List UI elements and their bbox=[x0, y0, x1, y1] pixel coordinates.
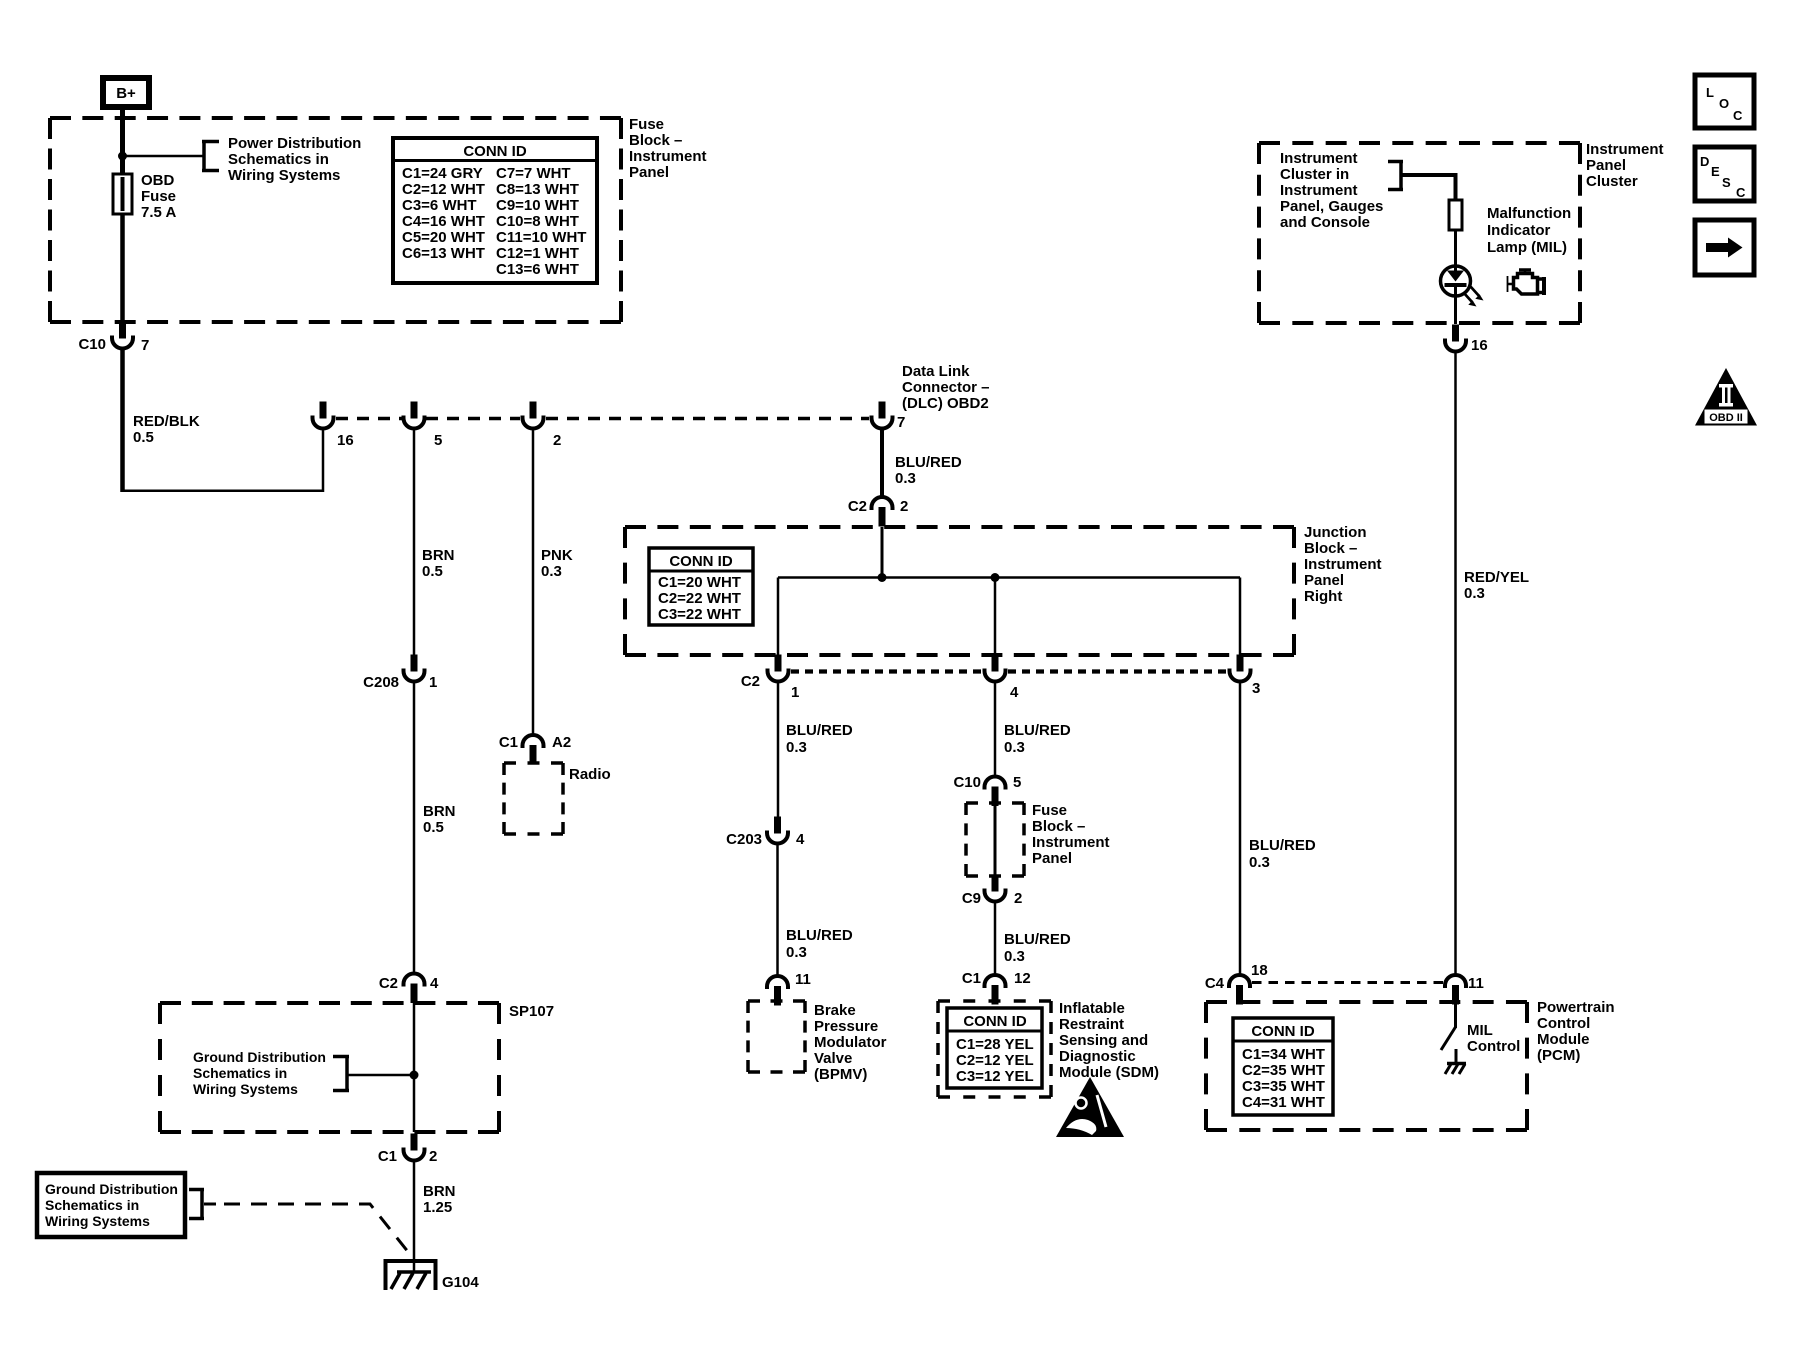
label BLU/RED 0.3 lower bbox=[786, 927, 853, 961]
svg-text:Ground Distribution: Ground Distribution bbox=[193, 1049, 326, 1065]
svg-text:Pressure: Pressure bbox=[814, 1018, 878, 1035]
svg-text:C1: C1 bbox=[962, 970, 981, 987]
svg-text:C9=10 WHT: C9=10 WHT bbox=[496, 197, 579, 214]
svg-text:CONN ID: CONN ID bbox=[963, 1013, 1027, 1030]
svg-text:Schematics in: Schematics in bbox=[228, 151, 329, 168]
svg-text:Panel: Panel bbox=[1032, 850, 1072, 867]
label Ground Distribution Schematics in Wiring Systems (SP107) bbox=[193, 1049, 326, 1097]
svg-text:Fuse: Fuse bbox=[1032, 802, 1067, 819]
svg-text:16: 16 bbox=[337, 432, 354, 449]
icon DESC box bbox=[1695, 147, 1754, 201]
svg-text:S: S bbox=[1722, 175, 1731, 190]
svg-text:0.3: 0.3 bbox=[1004, 739, 1025, 756]
ground internal PCM bbox=[1445, 1049, 1466, 1074]
svg-text:Indicator: Indicator bbox=[1487, 222, 1551, 239]
fuse block - instrument panel small (dashed box) bbox=[966, 803, 1024, 876]
svg-text:Instrument: Instrument bbox=[1032, 834, 1110, 851]
label BLU/RED 0.3 bbox=[895, 454, 962, 487]
svg-text:C13=6 WHT: C13=6 WHT bbox=[496, 261, 579, 278]
table CONN ID SDM bbox=[947, 1008, 1042, 1088]
wire lamp to LED bbox=[1454, 230, 1457, 266]
svg-text:MIL: MIL bbox=[1467, 1022, 1493, 1039]
svg-text:Instrument: Instrument bbox=[629, 148, 707, 165]
svg-text:A2: A2 bbox=[552, 734, 571, 751]
label Fuse Block - Instrument Panel bbox=[629, 116, 707, 181]
svg-text:Schematics in: Schematics in bbox=[45, 1197, 139, 1213]
svg-text:Module: Module bbox=[1537, 1031, 1590, 1048]
svg-text:5: 5 bbox=[434, 432, 442, 449]
svg-text:5: 5 bbox=[1013, 774, 1021, 791]
wire BRN 1.25 to ground bbox=[413, 1159, 416, 1272]
wire B+ feed down to fuse bbox=[120, 118, 125, 176]
connector C203 pin 4 bbox=[726, 817, 805, 849]
svg-text:Valve: Valve bbox=[814, 1050, 852, 1067]
svg-text:C4=16 WHT: C4=16 WHT bbox=[402, 213, 485, 230]
svg-text:Instrument: Instrument bbox=[1280, 182, 1358, 199]
svg-text:CONN ID: CONN ID bbox=[463, 143, 527, 160]
wire fuse to connector C10 bbox=[120, 214, 125, 324]
svg-text:1.25: 1.25 bbox=[423, 1199, 452, 1216]
svg-text:7: 7 bbox=[141, 337, 149, 354]
wire junction block distribution bar bbox=[778, 576, 1240, 579]
svg-text:2: 2 bbox=[1014, 890, 1022, 907]
connector DLC pin 7 bbox=[872, 402, 906, 432]
svg-text:2: 2 bbox=[429, 1148, 437, 1165]
reference box Ground Distribution Schematics in Wiring Systems bbox=[37, 1173, 185, 1237]
svg-text:BLU/RED: BLU/RED bbox=[786, 722, 853, 739]
label BLU/RED 0.3 bbox=[1004, 722, 1071, 756]
svg-text:C2: C2 bbox=[379, 975, 398, 992]
wire bracket to lamp bbox=[1401, 175, 1456, 200]
svg-text:RED/BLK: RED/BLK bbox=[133, 413, 200, 430]
component PCM (dashed box) bbox=[1206, 1002, 1527, 1130]
junction block - instrument panel right (dashed box) bbox=[625, 527, 1294, 655]
svg-text:C4=31 WHT: C4=31 WHT bbox=[1242, 1094, 1325, 1111]
svg-text:BRN: BRN bbox=[423, 803, 456, 820]
splice SP107 (dashed box) bbox=[160, 1003, 499, 1132]
svg-text:Block –: Block – bbox=[1304, 540, 1357, 557]
svg-text:Panel: Panel bbox=[629, 164, 669, 181]
svg-text:18: 18 bbox=[1251, 962, 1268, 979]
svg-text:L: L bbox=[1706, 85, 1714, 100]
connector C2 pin 3 bbox=[1230, 655, 1261, 698]
svg-text:CONN ID: CONN ID bbox=[1251, 1023, 1315, 1040]
svg-text:C2: C2 bbox=[848, 498, 867, 515]
wire BLU/RED C203 to BPMV bbox=[776, 842, 779, 978]
svg-text:C203: C203 bbox=[726, 831, 762, 848]
wire BLU/RED junction pin 3 to C4 bbox=[1239, 680, 1242, 976]
svg-text:PNK: PNK bbox=[541, 547, 573, 564]
wire RED/BLK down from C10 bbox=[120, 347, 125, 492]
svg-text:Data Link: Data Link bbox=[902, 363, 970, 380]
svg-text:Inflatable: Inflatable bbox=[1059, 1000, 1125, 1017]
svg-text:C1=20 WHT: C1=20 WHT bbox=[658, 574, 741, 591]
svg-text:Instrument: Instrument bbox=[1586, 141, 1664, 158]
svg-text:Sensing and: Sensing and bbox=[1059, 1032, 1148, 1049]
connector C1 pin 2 bbox=[378, 1134, 438, 1166]
svg-text:(BPMV): (BPMV) bbox=[814, 1066, 867, 1083]
wire through SP107 bbox=[413, 1003, 416, 1132]
fuse OBD 7.5 A bbox=[113, 174, 132, 214]
wire PNK from DLC pin 2 bbox=[532, 427, 535, 735]
node junction dot on B+ feed bbox=[118, 152, 127, 161]
svg-text:12: 12 bbox=[1014, 970, 1031, 987]
svg-text:C1=34 WHT: C1=34 WHT bbox=[1242, 1046, 1325, 1063]
table CONN ID fuse block bbox=[393, 138, 597, 283]
wire junction leg 3 bbox=[1239, 578, 1242, 658]
svg-text:Junction: Junction bbox=[1304, 524, 1367, 541]
node splice dot SP107 bbox=[410, 1071, 419, 1080]
table CONN ID PCM bbox=[1233, 1018, 1333, 1115]
svg-text:C208: C208 bbox=[363, 674, 399, 691]
svg-text:BLU/RED: BLU/RED bbox=[1004, 722, 1071, 739]
wire BRN to C2 bbox=[413, 680, 416, 974]
LED emission arrows bbox=[1464, 287, 1484, 307]
wire branch to power distribution reference bbox=[123, 155, 205, 158]
svg-text:1: 1 bbox=[791, 684, 799, 701]
connector C9 pin 2 bbox=[962, 875, 1023, 908]
svg-text:CONN ID: CONN ID bbox=[669, 553, 733, 570]
node dot at center leg bbox=[991, 573, 1000, 582]
svg-text:BLU/RED: BLU/RED bbox=[1249, 837, 1316, 854]
icon check engine bbox=[1508, 270, 1545, 295]
svg-text:Malfunction: Malfunction bbox=[1487, 205, 1571, 222]
wire dashed pointer to G104 bbox=[224, 1204, 409, 1253]
svg-text:BLU/RED: BLU/RED bbox=[786, 927, 853, 944]
label Malfunction Indicator Lamp (MIL) bbox=[1487, 205, 1571, 256]
svg-text:C2=12 WHT: C2=12 WHT bbox=[402, 181, 485, 198]
bracket ground distribution reference bbox=[333, 1055, 349, 1092]
svg-text:Cluster in: Cluster in bbox=[1280, 166, 1349, 183]
svg-text:Wiring Systems: Wiring Systems bbox=[45, 1213, 150, 1229]
connector C2 pin 1 bbox=[741, 655, 800, 702]
svg-text:4: 4 bbox=[796, 831, 805, 848]
svg-text:11: 11 bbox=[1468, 975, 1484, 992]
connector DLC pin 16 bbox=[313, 402, 354, 450]
svg-text:Fuse: Fuse bbox=[141, 188, 176, 205]
svg-text:Right: Right bbox=[1304, 588, 1342, 605]
svg-text:0.3: 0.3 bbox=[541, 563, 562, 580]
svg-text:C11=10 WHT: C11=10 WHT bbox=[496, 229, 586, 246]
svg-text:C6=13 WHT: C6=13 WHT bbox=[402, 245, 485, 262]
svg-text:Powertrain: Powertrain bbox=[1537, 999, 1615, 1016]
label MIL Control bbox=[1467, 1022, 1520, 1055]
svg-text:C: C bbox=[1733, 108, 1743, 123]
label BRN 0.5 lower bbox=[423, 803, 456, 836]
label Brake Pressure Modulator Valve (BPMV) bbox=[814, 1002, 887, 1083]
svg-text:4: 4 bbox=[430, 975, 439, 992]
connector DLC pin 5 bbox=[404, 402, 443, 450]
label BLU/RED 0.3 bbox=[786, 722, 853, 756]
svg-text:C3=35 WHT: C3=35 WHT bbox=[1242, 1078, 1325, 1095]
svg-text:C5=20 WHT: C5=20 WHT bbox=[402, 229, 485, 246]
svg-text:RED/YEL: RED/YEL bbox=[1464, 569, 1529, 586]
label OBD Fuse 7.5 A bbox=[141, 172, 176, 221]
label Data Link Connector - (DLC) OBD2 bbox=[902, 363, 990, 412]
svg-text:3: 3 bbox=[1252, 680, 1260, 697]
wire BRN from DLC pin 5 bbox=[413, 427, 416, 656]
label Powertrain Control Module (PCM) bbox=[1537, 999, 1615, 1064]
icon OBD II triangle bbox=[1695, 368, 1757, 426]
svg-text:7.5 A: 7.5 A bbox=[141, 204, 176, 221]
label Inflatable Restraint Sensing and Diagnostic Module (SDM) bbox=[1059, 1000, 1159, 1081]
label Fuse Block - Instrument Panel small bbox=[1032, 802, 1110, 867]
svg-text:C4: C4 bbox=[1205, 975, 1225, 992]
svg-text:OBD II: OBD II bbox=[1709, 412, 1743, 424]
svg-text:OBD: OBD bbox=[141, 172, 175, 189]
connector C10 pin 5 bbox=[953, 774, 1021, 806]
wire B+ to fuse block bbox=[120, 107, 125, 120]
fuse block - instrument panel (dashed box) bbox=[50, 118, 621, 322]
svg-text:0.3: 0.3 bbox=[1464, 585, 1485, 602]
component Radio (dashed box) bbox=[504, 763, 563, 834]
wire BLU/RED junction pin 1 to C203 bbox=[777, 680, 780, 817]
svg-text:0.3: 0.3 bbox=[1249, 854, 1270, 871]
svg-text:Module (SDM): Module (SDM) bbox=[1059, 1064, 1159, 1081]
svg-text:C12=1 WHT: C12=1 WHT bbox=[496, 245, 579, 262]
svg-text:7: 7 bbox=[897, 414, 905, 431]
svg-text:0.5: 0.5 bbox=[422, 563, 443, 580]
bracket power distribution reference bbox=[202, 140, 219, 172]
label BRN 1.25 bbox=[423, 1183, 456, 1216]
svg-text:Instrument: Instrument bbox=[1280, 150, 1358, 167]
component SDM (dashed box) bbox=[938, 1001, 1051, 1097]
wire dotted bus junction block outputs bbox=[791, 669, 1227, 673]
connector C1 pin 12 bbox=[962, 970, 1031, 1005]
svg-text:4: 4 bbox=[1010, 684, 1019, 701]
wire bracket to splice bbox=[347, 1074, 414, 1077]
wire dashed C4/18 to PCM pin 11 bbox=[1252, 981, 1443, 984]
connector C1 pin A2 bbox=[499, 734, 571, 765]
svg-text:C2=35 WHT: C2=35 WHT bbox=[1242, 1062, 1325, 1079]
icon SRS caution triangle bbox=[1056, 1077, 1124, 1137]
svg-text:2: 2 bbox=[900, 498, 908, 515]
svg-text:0.3: 0.3 bbox=[786, 944, 807, 961]
svg-text:Block –: Block – bbox=[1032, 818, 1085, 835]
svg-text:0.3: 0.3 bbox=[895, 470, 916, 487]
svg-text:C7=7 WHT: C7=7 WHT bbox=[496, 165, 571, 182]
svg-text:Control: Control bbox=[1537, 1015, 1590, 1032]
label BLU/RED 0.3 lower bbox=[1004, 931, 1071, 965]
svg-text:D: D bbox=[1700, 154, 1709, 169]
svg-text:C1=24 GRY: C1=24 GRY bbox=[402, 165, 483, 182]
wire BLU/RED junction pin 4 to C10 bbox=[994, 680, 997, 777]
lamp element MIL bbox=[1449, 200, 1462, 230]
wire dashed DLC bus bbox=[336, 417, 869, 421]
connector C2 pin 2 bbox=[848, 497, 909, 527]
bracket reference box bbox=[189, 1188, 204, 1220]
label PNK 0.3 bbox=[541, 547, 573, 580]
svg-text:Block –: Block – bbox=[629, 132, 682, 149]
connector C2 pin 4 bbox=[985, 655, 1020, 702]
label RED/BLK 0.5 bbox=[133, 413, 200, 446]
ground G104 bbox=[384, 1259, 480, 1291]
svg-text:C10: C10 bbox=[78, 336, 106, 353]
svg-text:C1: C1 bbox=[499, 734, 518, 751]
switch MIL control bbox=[1441, 1004, 1456, 1050]
svg-text:Radio: Radio bbox=[569, 766, 611, 783]
svg-text:BLU/RED: BLU/RED bbox=[895, 454, 962, 471]
svg-text:C2: C2 bbox=[741, 673, 760, 690]
table CONN ID junction block bbox=[649, 548, 753, 625]
svg-text:Diagnostic: Diagnostic bbox=[1059, 1048, 1136, 1065]
label Instrument Panel Cluster bbox=[1586, 141, 1664, 190]
svg-text:Ground Distribution: Ground Distribution bbox=[45, 1181, 178, 1197]
svg-text:C2=12 YEL: C2=12 YEL bbox=[956, 1052, 1034, 1069]
wire RED/YEL cluster to PCM bbox=[1454, 350, 1457, 976]
label Power Distribution Schematics in Wiring Systems bbox=[228, 135, 361, 184]
svg-text:C: C bbox=[1736, 185, 1746, 200]
svg-text:C2=22 WHT: C2=22 WHT bbox=[658, 590, 741, 607]
wire junction leg 1 bbox=[777, 578, 780, 658]
connector C2 pin 4 bbox=[379, 974, 439, 1004]
svg-text:C3=6 WHT: C3=6 WHT bbox=[402, 197, 477, 214]
label BLU/RED 0.3 bbox=[1249, 837, 1316, 871]
wire junction leg 4 bbox=[994, 578, 997, 658]
svg-text:BRN: BRN bbox=[422, 547, 455, 564]
svg-text:16: 16 bbox=[1471, 337, 1488, 354]
connector C4 pin 18 bbox=[1205, 962, 1268, 1005]
svg-text:C9: C9 bbox=[962, 890, 981, 907]
svg-text:SP107: SP107 bbox=[509, 1003, 554, 1020]
svg-text:O: O bbox=[1719, 96, 1729, 111]
svg-text:C10=8 WHT: C10=8 WHT bbox=[496, 213, 579, 230]
svg-text:0.5: 0.5 bbox=[423, 819, 444, 836]
connector DLC pin 2 bbox=[523, 402, 562, 450]
svg-text:(PCM): (PCM) bbox=[1537, 1047, 1580, 1064]
svg-text:Restraint: Restraint bbox=[1059, 1016, 1124, 1033]
wire LED to connector 16 bbox=[1454, 296, 1457, 324]
connector C208 pin 1 bbox=[363, 655, 437, 692]
svg-text:Panel: Panel bbox=[1586, 157, 1626, 174]
wire bracket stub bbox=[204, 1203, 216, 1206]
svg-text:C10: C10 bbox=[953, 774, 981, 791]
connector C10 pin 7 bbox=[78, 322, 149, 355]
svg-text:0.5: 0.5 bbox=[133, 429, 154, 446]
wire BLU/RED C9 to SDM bbox=[994, 900, 997, 976]
bracket instrument cluster reference bbox=[1388, 160, 1403, 191]
svg-text:0.3: 0.3 bbox=[1004, 948, 1025, 965]
instrument panel cluster (dashed box) bbox=[1259, 143, 1580, 323]
wire C2/2 into junction block bbox=[881, 527, 884, 578]
svg-text:C1: C1 bbox=[378, 1148, 397, 1165]
svg-text:Control: Control bbox=[1467, 1038, 1520, 1055]
svg-text:0.3: 0.3 bbox=[786, 739, 807, 756]
svg-text:1: 1 bbox=[429, 674, 437, 691]
svg-text:Panel, Gauges: Panel, Gauges bbox=[1280, 198, 1383, 215]
svg-text:C3=12 YEL: C3=12 YEL bbox=[956, 1068, 1034, 1085]
svg-text:2: 2 bbox=[553, 432, 561, 449]
label Instrument Cluster in Instrument Panel, Gauges and Console bbox=[1280, 150, 1383, 231]
svg-text:11: 11 bbox=[795, 971, 811, 988]
icon forward arrow box bbox=[1695, 220, 1754, 275]
connector cluster pin 16 bbox=[1445, 325, 1488, 355]
icon LOC box bbox=[1695, 75, 1754, 128]
connector PCM pin 11 bbox=[1445, 975, 1484, 1005]
svg-text:C1=28 YEL: C1=28 YEL bbox=[956, 1036, 1034, 1053]
svg-text:Fuse: Fuse bbox=[629, 116, 664, 133]
svg-text:Schematics in: Schematics in bbox=[193, 1065, 287, 1081]
svg-text:Wiring Systems: Wiring Systems bbox=[193, 1081, 298, 1097]
svg-text:Connector –: Connector – bbox=[902, 379, 990, 396]
svg-text:Power Distribution: Power Distribution bbox=[228, 135, 361, 152]
label RED/YEL 0.3 bbox=[1464, 569, 1529, 602]
label BRN 0.5 bbox=[422, 547, 455, 580]
node dot at C2 feed bbox=[878, 573, 887, 582]
svg-text:C8=13 WHT: C8=13 WHT bbox=[496, 181, 579, 198]
svg-text:E: E bbox=[1711, 164, 1720, 179]
svg-text:and Console: and Console bbox=[1280, 214, 1370, 231]
wire BLU/RED from DLC pin 7 bbox=[880, 427, 884, 499]
battery feed B+ bbox=[103, 78, 149, 107]
svg-text:Cluster: Cluster bbox=[1586, 173, 1638, 190]
svg-text:Panel: Panel bbox=[1304, 572, 1344, 589]
svg-text:Brake: Brake bbox=[814, 1002, 856, 1019]
svg-text:B+: B+ bbox=[116, 85, 136, 102]
svg-text:Modulator: Modulator bbox=[814, 1034, 887, 1051]
svg-text:Instrument: Instrument bbox=[1304, 556, 1382, 573]
svg-text:Wiring Systems: Wiring Systems bbox=[228, 167, 340, 184]
connector BPMV pin 11 bbox=[767, 971, 811, 1006]
svg-text:C3=22 WHT: C3=22 WHT bbox=[658, 606, 741, 623]
LED indicator symbol bbox=[1441, 266, 1471, 296]
component Brake Pressure Modulator Valve (dashed box) bbox=[748, 1001, 805, 1072]
svg-text:BRN: BRN bbox=[423, 1183, 456, 1200]
svg-text:Lamp (MIL): Lamp (MIL) bbox=[1487, 239, 1567, 256]
label Junction Block - Instrument Panel Right bbox=[1304, 524, 1382, 605]
wire through fuse block bbox=[994, 805, 997, 876]
svg-text:G104: G104 bbox=[442, 1274, 479, 1291]
svg-text:BLU/RED: BLU/RED bbox=[1004, 931, 1071, 948]
svg-text:(DLC) OBD2: (DLC) OBD2 bbox=[902, 395, 989, 412]
wire corner run to DLC pin 16 bbox=[123, 427, 324, 491]
